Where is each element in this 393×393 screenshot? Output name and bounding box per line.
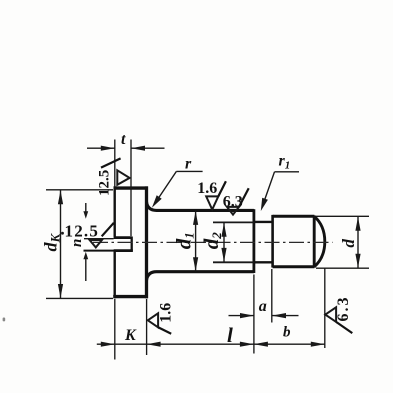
svg-text:12.5: 12.5 xyxy=(97,170,113,196)
svg-text:t: t xyxy=(121,131,126,148)
svg-text:d2: d2 xyxy=(199,232,224,250)
svg-text:d1: d1 xyxy=(172,232,197,249)
svg-text:1.6: 1.6 xyxy=(197,180,217,197)
svg-text:r1: r1 xyxy=(279,152,291,171)
svg-text:a: a xyxy=(259,298,267,315)
svg-text:K: K xyxy=(124,327,137,344)
svg-text:6.3: 6.3 xyxy=(335,296,352,322)
svg-text:dK: dK xyxy=(41,233,63,252)
svg-text:12.5: 12.5 xyxy=(65,222,100,241)
svg-text:r: r xyxy=(185,155,192,172)
svg-text:l: l xyxy=(227,323,233,347)
svg-text:b: b xyxy=(283,325,291,341)
svg-text:1.6: 1.6 xyxy=(157,303,174,323)
svg-text:d: d xyxy=(339,239,358,248)
